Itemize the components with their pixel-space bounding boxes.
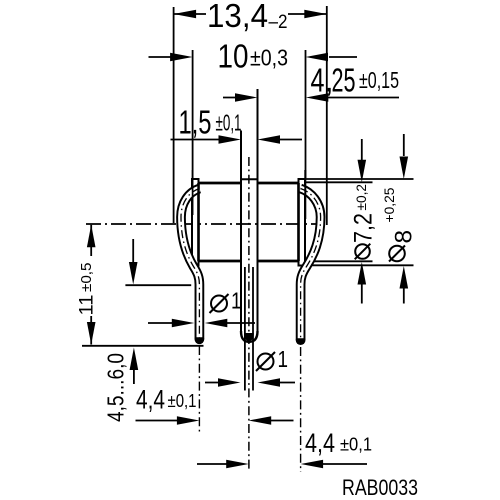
svg-text:4,5...6,0: 4,5...6,0 — [103, 353, 129, 422]
svg-text:13,4: 13,4 — [207, 0, 268, 34]
dia 8 bottom arrow stem — [403, 287, 405, 304]
svg-text:1: 1 — [231, 288, 242, 314]
arrowhead dia1 left lead b — [205, 319, 228, 328]
right lead axis extension below tip — [300, 347, 302, 472]
svg-text:±0,1: ±0,1 — [216, 110, 242, 136]
extension line ext tube right for 4,25 and 1,5 — [257, 89, 259, 180]
arrowhead dia1 left lead a — [172, 319, 195, 328]
dimension line 4,4 left tails — [136, 420, 294, 422]
extension line body bottom right for dia 7,2 — [299, 260, 373, 262]
center wire left edge — [244, 267, 246, 391]
horizontal centerline through body — [86, 223, 319, 225]
dia 1 left lead dim tails — [148, 322, 255, 324]
svg-text:RAB0033: RAB0033 — [342, 475, 418, 500]
arrowhead dia 7,2 bottom — [358, 262, 367, 285]
svg-text:4,4: 4,4 — [136, 385, 165, 415]
left lead outer stroke — [181, 189, 200, 340]
center tube dark tip fill — [244, 333, 254, 341]
arrowhead 11 top — [87, 225, 96, 248]
label dia symbol for center dia 1 — [256, 352, 275, 371]
label dia symbol for dia 7,2 — [355, 244, 371, 260]
dimension line 4,25 right tail — [327, 97, 399, 99]
arrowhead dia1 center b — [258, 378, 281, 387]
left lead inner white — [181, 189, 200, 338]
arrow stem 4,5-6,0 upper — [132, 239, 134, 266]
arrowhead dia 8 top — [400, 157, 409, 180]
dia 7,2 bottom arrow stem — [361, 283, 363, 304]
arrowhead 4,25 right — [306, 93, 329, 102]
body outline redrawn over leads — [199, 183, 299, 261]
extension line 10 right overdrawn on lead — [304, 170, 306, 219]
extension line ext tube left for 1,5 — [240, 131, 242, 181]
arrowhead dia1 center a — [218, 378, 241, 387]
svg-text:±0,15: ±0,15 — [359, 67, 399, 93]
svg-text:±0,5: ±0,5 — [78, 263, 95, 293]
dimension line 1,5 left tail — [171, 139, 223, 141]
svg-text:±0,2: ±0,2 — [354, 184, 369, 211]
extension line right for 10 / cap edge extension — [305, 50, 307, 178]
arrowhead 4,25 left — [235, 93, 258, 102]
arrowhead 13,4 right — [304, 10, 327, 19]
arrowhead 4,5-6,0 down — [129, 262, 138, 285]
left end cap — [192, 179, 199, 266]
dia 1 center dim tails — [205, 382, 295, 384]
center tube rounded bottom neck — [241, 331, 258, 342]
right end cap — [299, 179, 306, 266]
dia 8 top arrow stem — [403, 134, 405, 156]
dimension line 4,4 right tails — [197, 463, 367, 465]
center exhaust tube right line — [257, 89, 259, 333]
arrowhead 1,5 right — [258, 135, 281, 144]
center tube top edge — [241, 178, 258, 180]
label dia symbol for left lead dia 1 — [210, 294, 229, 313]
dimension line 10 left tail — [149, 56, 177, 58]
arrowhead 4,4 left dim a — [177, 416, 200, 425]
lead tip plane line — [82, 345, 204, 347]
dimension line 11 lower segment — [90, 316, 92, 345]
body outline — [199, 183, 299, 261]
arrowhead 10 right — [306, 53, 329, 62]
svg-text:–2: –2 — [269, 12, 288, 33]
seating plane line — [125, 284, 191, 286]
label dia symbol for dia 8 — [389, 246, 405, 262]
extension line cap bottom right for dia 8 — [305, 264, 414, 266]
svg-text:7,2: 7,2 — [350, 213, 378, 243]
dia 7,2 top arrow stem — [361, 139, 363, 161]
svg-text:11: 11 — [77, 295, 98, 316]
svg-text:±0,1: ±0,1 — [340, 435, 372, 455]
arrowhead dia 8 bottom — [400, 266, 409, 289]
dimension line 1,5 right tail — [279, 139, 302, 141]
left lead rounded tip — [195, 334, 205, 344]
arrowhead 13,4 left — [174, 10, 197, 19]
arrowhead 1,5 left — [219, 135, 242, 144]
extension line body top right for dia 7,2 — [299, 181, 373, 183]
arrowhead dia 7,2 top — [358, 160, 367, 183]
svg-text:4: 4 — [311, 62, 325, 99]
svg-text:+0,25: +0,25 — [382, 188, 397, 223]
extension line right for 13,4 — [326, 6, 328, 225]
svg-text:±0,1: ±0,1 — [168, 391, 197, 411]
arrowhead 4,5-6,0 up — [130, 348, 139, 371]
left lead axis — [181, 189, 200, 339]
arrowhead 4,4 right dim b — [301, 460, 324, 469]
dimension line 13,4 — [174, 13, 327, 15]
arrow stem 4,5-6,0 lower — [133, 366, 135, 384]
dimension line 10 right tail — [329, 56, 357, 58]
right lead inner white — [301, 189, 321, 339]
svg-text:8: 8 — [391, 230, 418, 244]
dimension line 4,25 left tail — [223, 97, 240, 99]
svg-text:1: 1 — [278, 346, 289, 372]
left lead axis extension below tip — [198, 346, 200, 432]
svg-text:1,5: 1,5 — [179, 104, 212, 141]
extension line cap top right for dia 8 — [305, 178, 414, 180]
svg-text:25: 25 — [332, 62, 356, 99]
svg-text:±0,3: ±0,3 — [250, 45, 288, 71]
right lead axis — [301, 189, 321, 339]
center exhaust tube left line — [240, 131, 242, 334]
extension line 10 left overdrawn on lead — [192, 170, 194, 215]
svg-text:10: 10 — [218, 38, 249, 75]
dimension line 11 upper segment — [90, 225, 92, 256]
center electrode axis — [248, 157, 250, 472]
svg-text:4,4: 4,4 — [305, 428, 335, 458]
arrowhead 10 left — [170, 53, 193, 62]
arrowhead 4,4 right dim a — [226, 460, 249, 469]
right lead outer stroke — [301, 189, 321, 341]
right lead rounded tip — [296, 335, 306, 345]
arrowhead 11 bottom — [87, 322, 96, 345]
center wire right edge — [252, 267, 254, 391]
extension line left for 10 — [192, 50, 194, 219]
arrowhead 4,4 left dim b — [249, 416, 272, 425]
extension line left for 13,4 — [173, 7, 175, 223]
